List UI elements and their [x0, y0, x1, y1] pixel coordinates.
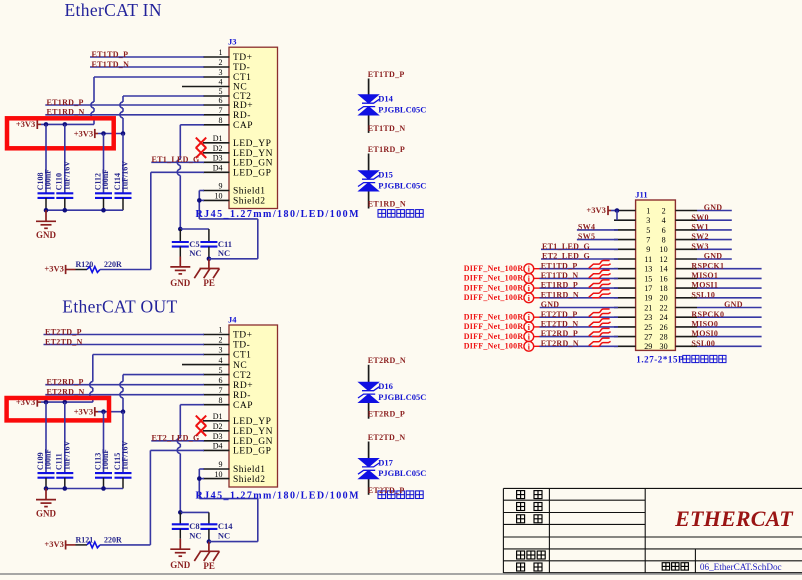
pin 18 of J11 — [660, 284, 697, 293]
capacitor C14 NC — [200, 512, 233, 541]
part comment 1.27-2*15P header — [636, 355, 726, 365]
wire GND to J11 pin 21 — [540, 307, 618, 309]
no-ERC marker on pin D2 — [196, 148, 206, 158]
title block label 文件名 — [662, 563, 688, 570]
wire MOSI1 from J11 pin 18 — [697, 287, 762, 289]
pin D3 LED_GN of J4 — [203, 432, 273, 447]
diff pair directive DIFF_Net_100R on ET2RD_N — [464, 341, 540, 351]
wire SW0 from J11 pin 4 — [697, 219, 732, 221]
svg-text:4: 4 — [219, 356, 223, 365]
svg-text:27: 27 — [644, 333, 652, 342]
svg-text:7: 7 — [219, 386, 223, 395]
pin 2 TD- of J3 — [203, 58, 250, 73]
wire ET2RD_N to pin 7 — [45, 394, 204, 396]
diff pair squiggle on ET1RD_N — [589, 290, 611, 298]
wire ET1RD_N to pin 7 — [45, 114, 204, 116]
diff pair squiggle on ET1TD_P — [589, 261, 611, 269]
wire shield pins to PE — [199, 191, 257, 259]
pin 21 of J11 — [614, 303, 652, 312]
svg-text:ET2_LED_G: ET2_LED_G — [542, 252, 590, 261]
svg-text:7: 7 — [219, 106, 223, 115]
diff pair directive DIFF_Net_100R on ET1RD_P — [464, 283, 540, 293]
wire CT2 to +3V3 rail — [123, 374, 204, 376]
diff pair directive DIFF_Net_100R on ET1TD_N — [464, 273, 540, 283]
no-ERC marker on pin D2 — [196, 426, 206, 436]
junction — [44, 400, 49, 405]
wire +3V3 rail2 — [98, 411, 123, 413]
diff pair directive DIFF_Net_100R on ET1RD_N — [464, 293, 540, 303]
svg-text:NC: NC — [233, 83, 247, 93]
capacitor C112 100nF — [93, 134, 112, 211]
svg-text:ET1TD_P: ET1TD_P — [541, 261, 578, 270]
junction — [44, 122, 49, 127]
svg-text:17: 17 — [644, 284, 652, 293]
wire SSL10 from J11 pin 20 — [697, 297, 762, 299]
pin 1 TD+ of J4 — [203, 326, 253, 341]
wire SW5 to J11 pin 7 — [577, 239, 618, 241]
wire ET1RD_P to J11 pin 17 — [540, 287, 619, 289]
svg-text:14: 14 — [660, 265, 668, 274]
svg-text:TD+: TD+ — [233, 53, 253, 63]
svg-text:26: 26 — [660, 323, 668, 332]
pin 9 of J11 — [614, 245, 650, 254]
capacitor C115 1uF/16V — [113, 412, 132, 489]
wire ET1RD_N to J11 pin 19 — [540, 297, 619, 299]
pin 13 of J11 — [614, 265, 652, 274]
earth PE — [194, 259, 219, 278]
svg-text:D3: D3 — [213, 154, 223, 163]
svg-text:NC: NC — [233, 361, 247, 371]
connector J11 body — [636, 200, 676, 350]
diff pair squiggle on ET2RD_N — [589, 338, 611, 346]
wire ET2RD_P to J11 pin 27 — [540, 336, 619, 338]
ground — [36, 210, 56, 228]
pin 10 Shield2 of J4 — [203, 470, 266, 485]
diff pair squiggle on ET2RD_P — [589, 328, 611, 336]
junction — [101, 208, 106, 213]
wire MOSI0 from J11 pin 28 — [697, 336, 762, 338]
pin D3 LED_GN of J3 — [203, 154, 273, 169]
pin D4 LED_GP of J4 — [203, 442, 271, 457]
wire junction row — [180, 511, 209, 513]
svg-text:1uF/16V: 1uF/16V — [62, 441, 71, 471]
svg-text:DIFF_Net_100R: DIFF_Net_100R — [464, 283, 524, 292]
svg-text:D4: D4 — [213, 164, 223, 173]
svg-text:8: 8 — [219, 396, 223, 405]
svg-text:ETHERCAT: ETHERCAT — [674, 506, 794, 531]
power port +3V3 for R121 — [66, 540, 76, 549]
wire resistor to LED_GP — [100, 269, 151, 271]
svg-text:GND: GND — [36, 230, 57, 240]
svg-text:R121: R121 — [76, 535, 94, 544]
svg-text:CAP: CAP — [233, 401, 253, 411]
svg-text:J3: J3 — [228, 37, 237, 47]
junction — [207, 257, 212, 262]
svg-text:SW3: SW3 — [691, 242, 708, 251]
svg-text:J11: J11 — [635, 190, 647, 200]
svg-text:22: 22 — [660, 303, 668, 312]
wire ET2_LED_G to J11 pin 11 — [541, 258, 618, 260]
svg-text:ET2TD_P: ET2TD_P — [368, 486, 405, 495]
svg-text:ET1TD_N: ET1TD_N — [541, 271, 579, 280]
wire SW2 from J11 pin 8 — [697, 239, 732, 241]
svg-text:6: 6 — [662, 226, 666, 235]
no-ERC marker on pin D1 — [196, 416, 206, 426]
pin D2 LED_YN of J3 — [203, 144, 273, 159]
svg-text:ET1RD_N: ET1RD_N — [47, 108, 85, 117]
wire GND from J11 pin 12 — [697, 258, 732, 260]
svg-text:ET2RD_N: ET2RD_N — [368, 356, 406, 365]
power port +3V3 rail2 — [95, 129, 98, 138]
pin 1 of J11 — [614, 206, 650, 215]
pin D1 LED_YP of J4 — [203, 412, 271, 427]
power port +3V3 at J11 pin1 — [608, 206, 611, 215]
wire resistor to LED_GP — [100, 544, 150, 546]
svg-text:ET1RD_N: ET1RD_N — [541, 290, 579, 299]
diff pair directive DIFF_Net_100R on ET1TD_P — [464, 264, 540, 274]
svg-text:7: 7 — [646, 236, 650, 245]
svg-text:ET1TD_P: ET1TD_P — [92, 50, 129, 59]
svg-text:ET2RD_N: ET2RD_N — [47, 388, 85, 397]
resistor R120 220R — [76, 260, 123, 273]
svg-text:SW0: SW0 — [691, 213, 708, 222]
pin 16 of J11 — [660, 274, 697, 283]
pin 15 of J11 — [614, 274, 652, 283]
capacitor C8 NC — [172, 512, 202, 540]
red highlight rectangle around +3V3 ports — [7, 118, 114, 148]
svg-text:ET1RD_P: ET1RD_P — [47, 98, 84, 107]
junction — [121, 409, 126, 414]
power port +3V3 rail1 — [37, 120, 41, 129]
capacitor C5 NC — [172, 229, 202, 258]
svg-text:NC: NC — [189, 248, 201, 258]
svg-text:LED_YN: LED_YN — [233, 427, 273, 437]
svg-text:RD+: RD+ — [233, 381, 253, 391]
svg-text:PJGBLC05C: PJGBLC05C — [378, 104, 426, 114]
svg-text:GND: GND — [704, 252, 723, 261]
svg-text:1: 1 — [219, 326, 223, 335]
svg-text:6: 6 — [219, 96, 223, 105]
svg-text:RD-: RD- — [233, 391, 251, 401]
wire CT1 to +3V3 rail — [94, 76, 204, 78]
tvs diode D17 PJGBLC05C — [357, 442, 426, 495]
wire shield pins to PE — [199, 469, 257, 542]
svg-text:DIFF_Net_100R: DIFF_Net_100R — [464, 312, 524, 321]
wire pin D4 to resistor — [150, 449, 204, 451]
svg-text:SW4: SW4 — [578, 223, 595, 232]
svg-text:19: 19 — [644, 294, 652, 303]
junction — [197, 198, 202, 203]
wire ET2TD_N to pin 2 — [44, 344, 205, 346]
pin 6 of J11 — [662, 226, 697, 235]
wire CT1 to +3V3 rail — [93, 354, 204, 356]
svg-text:EtherCAT IN: EtherCAT IN — [65, 0, 162, 20]
svg-text:D2: D2 — [213, 144, 223, 153]
title block label 设计 — [517, 491, 542, 499]
svg-text:LED_GP: LED_GP — [233, 169, 271, 179]
pin 4 NC of J3 — [182, 78, 247, 93]
svg-text:ET2TD_N: ET2TD_N — [541, 320, 579, 329]
wire RSPCK1 from J11 pin 14 — [697, 268, 762, 270]
tvs diode D15 PJGBLC05C — [357, 154, 426, 209]
svg-text:ET1_LED_G: ET1_LED_G — [542, 242, 590, 251]
tvs diode D16 PJGBLC05C — [357, 365, 426, 419]
svg-text:23: 23 — [644, 313, 652, 322]
svg-text:8: 8 — [219, 116, 223, 125]
resistor R121 220R — [76, 535, 123, 548]
wire ET2RD_P to pin 6 — [45, 384, 204, 386]
wire SSL00 from J11 pin 30 — [697, 345, 762, 347]
svg-text:DIFF_Net_100R: DIFF_Net_100R — [464, 332, 524, 341]
pin 6 RD+ of J4 — [203, 376, 253, 391]
junction — [101, 486, 106, 491]
pin 24 of J11 — [660, 313, 697, 322]
pin 6 RD+ of J3 — [203, 96, 253, 111]
svg-text:3: 3 — [219, 68, 223, 77]
svg-text:4: 4 — [219, 78, 223, 87]
svg-text:+3V3: +3V3 — [74, 407, 93, 417]
wire CAP pin 8 down to capacitor junction — [180, 404, 204, 406]
svg-text:MOSI0: MOSI0 — [691, 329, 718, 338]
part comment RJ45 transformer — [196, 209, 424, 220]
pin D4 LED_GP of J3 — [203, 164, 271, 179]
capacitor C110 1uF/16V — [55, 124, 74, 210]
svg-text:PJGBLC05C: PJGBLC05C — [378, 180, 426, 190]
pin 3 CT1 of J3 — [203, 68, 251, 83]
no-ERC marker on pin D1 — [196, 138, 206, 148]
wire ET2TD_P to pin 1 — [44, 334, 205, 336]
pin 11 of J11 — [614, 255, 652, 264]
svg-text:29: 29 — [644, 342, 652, 351]
wire SW1 from J11 pin 6 — [697, 229, 732, 231]
wire SW3 from J11 pin 10 — [697, 248, 732, 250]
title block label 工艺 — [517, 515, 542, 523]
svg-text:ET2RD_P: ET2RD_P — [541, 329, 578, 338]
wire CAP pin 8 down to capacitor junction — [180, 124, 204, 126]
svg-text:PE: PE — [203, 278, 215, 288]
svg-text:D4: D4 — [213, 442, 223, 451]
svg-text:2: 2 — [662, 206, 666, 215]
title block label 批准 — [517, 563, 542, 571]
svg-text:13: 13 — [644, 265, 652, 274]
svg-text:GND: GND — [724, 300, 743, 309]
svg-text:LED_GP: LED_GP — [233, 447, 271, 457]
wire ET1RD_P to pin 6 — [45, 104, 204, 106]
wire gnd bus under capacitors — [46, 488, 123, 490]
pin 4 NC of J4 — [182, 356, 247, 371]
wire gnd bus under capacitors — [46, 209, 123, 211]
svg-text:CT2: CT2 — [233, 371, 251, 381]
pin 5 CT2 of J4 — [203, 366, 251, 381]
svg-text:8: 8 — [662, 236, 666, 245]
svg-text:5: 5 — [646, 226, 650, 235]
svg-text:GND: GND — [541, 300, 560, 309]
svg-text:ET1TD_N: ET1TD_N — [92, 60, 130, 69]
svg-text:NC: NC — [218, 531, 230, 541]
svg-text:Shield2: Shield2 — [233, 197, 266, 207]
pin 8 CAP of J4 — [203, 396, 253, 411]
title block label 标准化 — [517, 551, 546, 559]
wire ET1TD_P to pin 1 — [90, 56, 204, 58]
svg-text:SSL10: SSL10 — [691, 290, 715, 299]
svg-text:25: 25 — [644, 323, 652, 332]
svg-text:D1: D1 — [213, 134, 223, 143]
svg-text:RJ45_1.27mm/180/LED/100M: RJ45_1.27mm/180/LED/100M — [196, 490, 361, 501]
junction — [101, 131, 106, 136]
pin 30 of J11 — [660, 342, 697, 351]
svg-text:D16: D16 — [378, 381, 393, 391]
diff pair squiggle on ET2TD_P — [589, 309, 611, 317]
pin 12 of J11 — [660, 255, 697, 264]
svg-text:DIFF_Net_100R: DIFF_Net_100R — [464, 322, 524, 331]
wire CT2 to +3V3 rail — [123, 95, 204, 97]
pin 29 of J11 — [614, 342, 652, 351]
svg-text:LED_YP: LED_YP — [233, 417, 271, 427]
svg-text:5: 5 — [219, 366, 223, 375]
svg-text:16: 16 — [660, 274, 668, 283]
capacitor C11 NC — [200, 229, 232, 259]
pin 4 of J11 — [662, 216, 697, 225]
svg-text:LED_GN: LED_GN — [233, 159, 273, 169]
svg-text:1.27-2*15P: 1.27-2*15P — [636, 355, 684, 365]
svg-text:ET2_LED_G: ET2_LED_G — [152, 433, 200, 442]
svg-text:20: 20 — [660, 294, 668, 303]
svg-text:GND: GND — [704, 203, 723, 212]
svg-text:ET1TD_P: ET1TD_P — [368, 70, 405, 79]
svg-text:28: 28 — [660, 333, 668, 342]
svg-text:5: 5 — [219, 87, 223, 96]
svg-text:MISO0: MISO0 — [691, 320, 718, 329]
pin 28 of J11 — [660, 333, 697, 342]
svg-text:+3V3: +3V3 — [74, 128, 93, 138]
connector J3 body — [229, 47, 278, 208]
svg-text:ET2TD_N: ET2TD_N — [368, 433, 406, 442]
svg-text:TD+: TD+ — [233, 331, 253, 341]
svg-text:1uF/16V: 1uF/16V — [121, 441, 130, 471]
pin 2 of J11 — [662, 206, 697, 215]
svg-text:MOSI1: MOSI1 — [691, 281, 718, 290]
title block table — [503, 488, 802, 573]
svg-text:EtherCAT OUT: EtherCAT OUT — [62, 297, 177, 317]
junction — [615, 208, 620, 213]
svg-text:MISO1: MISO1 — [691, 271, 718, 280]
svg-text:ET1RD_P: ET1RD_P — [541, 281, 578, 290]
svg-text:RJ45_1.27mm/180/LED/100M: RJ45_1.27mm/180/LED/100M — [196, 209, 361, 220]
svg-text:3: 3 — [219, 346, 223, 355]
pin 23 of J11 — [614, 313, 652, 322]
svg-text:TD-: TD- — [233, 63, 250, 73]
wire GND from J11 pin 2 — [697, 210, 732, 212]
svg-text:220R: 220R — [104, 260, 122, 269]
svg-text:D17: D17 — [378, 457, 393, 467]
svg-text:PJGBLC05C: PJGBLC05C — [378, 468, 426, 478]
ground — [170, 539, 190, 556]
svg-text:1uF/16V: 1uF/16V — [62, 161, 71, 191]
svg-text:TD-: TD- — [233, 341, 250, 351]
junction — [63, 400, 68, 405]
svg-text:18: 18 — [660, 284, 668, 293]
power port +3V3 for R120 — [66, 265, 76, 274]
svg-text:SSL00: SSL00 — [691, 339, 715, 348]
earth PE — [194, 542, 219, 561]
svg-text:+3V3: +3V3 — [44, 264, 63, 274]
wire ET2RD_N to J11 pin 29 — [540, 345, 619, 347]
wire +3V3 rail2 — [98, 133, 123, 135]
pin 7 of J11 — [614, 236, 650, 245]
pin 7 RD- of J3 — [203, 106, 251, 121]
wire MISO1 from J11 pin 16 — [697, 277, 762, 279]
pin 1 TD+ of J3 — [203, 48, 253, 63]
svg-text:SW1: SW1 — [691, 223, 708, 232]
svg-text:10: 10 — [215, 470, 223, 479]
junction — [44, 486, 49, 491]
svg-text:D2: D2 — [213, 422, 223, 431]
svg-text:6: 6 — [219, 376, 223, 385]
svg-text:ET2TD_P: ET2TD_P — [541, 310, 578, 319]
junction — [121, 131, 126, 136]
power port +3V3 rail2 — [95, 407, 98, 416]
svg-text:+3V3: +3V3 — [44, 539, 63, 549]
junction — [63, 486, 68, 491]
junction — [101, 409, 106, 414]
svg-text:DIFF_Net_100R: DIFF_Net_100R — [464, 274, 524, 283]
svg-text:ET1RD_N: ET1RD_N — [368, 200, 406, 209]
wire +3V3 rail1 — [41, 401, 93, 403]
svg-text:ET2TD_N: ET2TD_N — [45, 337, 83, 346]
svg-text:30: 30 — [660, 342, 668, 351]
svg-text:NC: NC — [189, 531, 201, 541]
pin D2 LED_YN of J4 — [203, 422, 273, 437]
capacitor C111 1uF/16V — [55, 402, 74, 488]
svg-text:LED_YP: LED_YP — [233, 139, 271, 149]
svg-text:SW2: SW2 — [691, 232, 708, 241]
svg-text:ET1RD_P: ET1RD_P — [368, 145, 405, 154]
svg-text:100nF: 100nF — [101, 449, 110, 470]
diff pair directive DIFF_Net_100R on ET2TD_N — [464, 322, 540, 332]
title block label 审核 — [517, 503, 542, 511]
wire ET1_LED_G to pin D3 — [151, 161, 204, 163]
ground — [36, 489, 56, 507]
diff pair squiggle on ET1RD_P — [589, 280, 611, 288]
svg-text:GND: GND — [170, 560, 191, 570]
svg-text:DIFF_Net_100R: DIFF_Net_100R — [464, 264, 524, 273]
pin 10 of J11 — [660, 245, 697, 254]
junction — [207, 539, 212, 544]
svg-text:CT1: CT1 — [233, 351, 251, 361]
svg-text:4: 4 — [662, 216, 666, 225]
wire GND from J11 pin 22 — [697, 307, 762, 309]
svg-text:ET2RD_P: ET2RD_P — [47, 378, 84, 387]
svg-text:CT1: CT1 — [233, 73, 251, 83]
pin D1 LED_YP of J3 — [203, 134, 271, 149]
svg-text:9: 9 — [646, 245, 650, 254]
pin 25 of J11 — [614, 323, 652, 332]
pin 20 of J11 — [660, 294, 697, 303]
svg-text:D1: D1 — [213, 412, 223, 421]
svg-text:06_EtherCAT.SchDoc: 06_EtherCAT.SchDoc — [700, 562, 782, 572]
pin 5 CT2 of J3 — [203, 87, 251, 102]
svg-text:DIFF_Net_100R: DIFF_Net_100R — [464, 293, 524, 302]
capacitor C109 100nF — [36, 402, 55, 488]
pin 2 TD- of J4 — [203, 336, 250, 351]
svg-text:100nF: 100nF — [44, 449, 53, 470]
pin 14 of J11 — [660, 265, 697, 274]
svg-text:NC: NC — [218, 248, 230, 258]
wire MISO0 from J11 pin 26 — [697, 326, 762, 328]
tvs diode D14 PJGBLC05C — [357, 79, 426, 133]
svg-text:10: 10 — [660, 245, 668, 254]
svg-text:D14: D14 — [378, 94, 393, 104]
